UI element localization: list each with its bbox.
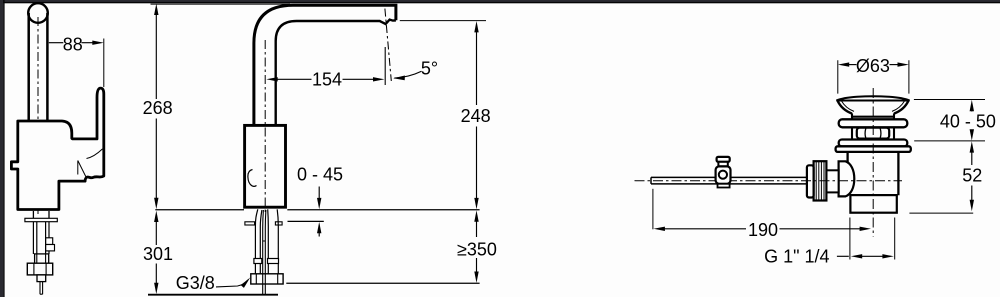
left border bar (0, 0, 3, 297)
rod clamp neck (718, 162, 727, 167)
extension line drain flange right (914, 140, 985, 142)
drain flange plate (836, 146, 911, 152)
drain threaded tail (850, 195, 896, 213)
spout inner profile with outlet (front view) (276, 20, 396, 125)
mixer body with handle (side view) (11, 88, 103, 209)
dimension 190 (654, 227, 665, 231)
pop-up rod lower (side view) (40, 282, 43, 295)
pop-up rod (front view) (263, 210, 266, 294)
mixer body (front view) (245, 125, 286, 207)
knurled nut (814, 161, 827, 200)
top border band (0, 0, 1000, 2)
extension line outlet bottom (400, 20, 486, 22)
centerline (side view) (37, 17, 39, 214)
hose coupler left (254, 259, 262, 264)
svg-text:0 - 45: 0 - 45 (297, 165, 343, 185)
svg-text:52: 52 (962, 166, 982, 186)
mounting stud plates (front view) (245, 222, 255, 225)
spout outer profile (front view) (254, 5, 396, 125)
drain plug ring B (839, 140, 908, 147)
drain plug neck (852, 113, 894, 119)
rod clamp flange (718, 184, 730, 188)
dimension 248 (474, 21, 478, 32)
extension line handle front (103, 39, 105, 88)
stub below nut (side view) (37, 275, 46, 282)
knurled nut cap (807, 165, 814, 197)
bottom reference line 350 (286, 282, 479, 284)
rod clamp cap (717, 157, 730, 162)
dimension 268/301 vertical line (154, 4, 158, 15)
dimension >=350 (474, 210, 478, 221)
svg-text:G3/8: G3/8 (176, 273, 215, 293)
dimension 88 line right (82, 42, 94, 44)
outlet axis 5 deg (385, 9, 391, 81)
mounting washer (side view) (25, 218, 57, 221)
fixing nut (side view) (27, 263, 52, 275)
dimension 40-50 (970, 100, 974, 111)
svg-text:G 1" 1/4: G 1" 1/4 (764, 246, 829, 266)
drain plug rim (836, 96, 909, 100)
leader G3/8 (216, 280, 248, 287)
rod boss on drain body (839, 161, 855, 196)
svg-text:40 - 50: 40 - 50 (940, 111, 996, 131)
spout tube sides (side view) (29, 13, 48, 121)
dimension 88 line left (49, 42, 64, 44)
svg-text:154: 154 (312, 70, 342, 90)
coupler (side view) (35, 254, 49, 263)
dimension O63 (838, 62, 849, 66)
countertop line (155, 209, 479, 211)
hose lower right (268, 264, 278, 274)
rod shaft into boss (826, 170, 838, 192)
shank upper (side view) (33, 211, 49, 218)
svg-text:190: 190 (748, 220, 778, 240)
svg-text:268: 268 (143, 98, 173, 118)
leader line G 1 1/4 (837, 255, 849, 257)
hose coupler right (268, 259, 279, 264)
extension line drain top right (914, 99, 985, 101)
hose lower left (255, 264, 260, 274)
extension line 190 left (652, 189, 654, 230)
handle recess detail lines (side view) (78, 149, 103, 178)
drain plug trumpet (838, 101, 909, 114)
supply hose right (front view) (268, 209, 279, 258)
drain plug waist (852, 127, 894, 139)
rod clamp body (716, 166, 731, 183)
G3/8 nuts (front view) (251, 274, 283, 284)
shank tubes (side view) (33, 222, 49, 264)
dimension 154 (266, 77, 277, 81)
handle hook detail (front view) (248, 170, 257, 187)
drain plug ring A (839, 119, 908, 127)
bottom extension line 301 (148, 294, 278, 296)
centerline (front view) (264, 40, 266, 214)
supply hose left (front view) (255, 209, 262, 258)
rod clamp hole (719, 171, 727, 179)
drain plug window (857, 128, 889, 139)
horizontal pull rod (651, 177, 808, 184)
svg-text:Ø63: Ø63 (856, 56, 890, 76)
side fixation block (side view) (46, 238, 53, 245)
countertop underside line (288, 220, 324, 222)
extension lines G 1 1/4 (850, 218, 895, 260)
spout tube cap (side view) (28, 3, 48, 23)
svg-text:301: 301 (143, 244, 173, 264)
svg-text:248: 248 (461, 106, 491, 126)
svg-text:5°: 5° (421, 59, 438, 79)
svg-text:88: 88 (63, 34, 83, 54)
drain centerline horizontal (635, 180, 903, 182)
top extension line (151, 3, 291, 5)
svg-text:≥350: ≥350 (457, 239, 497, 259)
dimension G 1 1/4 arrows (851, 254, 862, 258)
dimension 88 arrow (92, 41, 104, 45)
extension line 52 bottom (909, 212, 973, 214)
outlet vertical reference line (384, 47, 386, 85)
drain centerline vertical (872, 88, 874, 237)
dimension O63 extension lines (838, 60, 909, 93)
drain body (848, 152, 899, 195)
dimension 52 (970, 141, 974, 152)
